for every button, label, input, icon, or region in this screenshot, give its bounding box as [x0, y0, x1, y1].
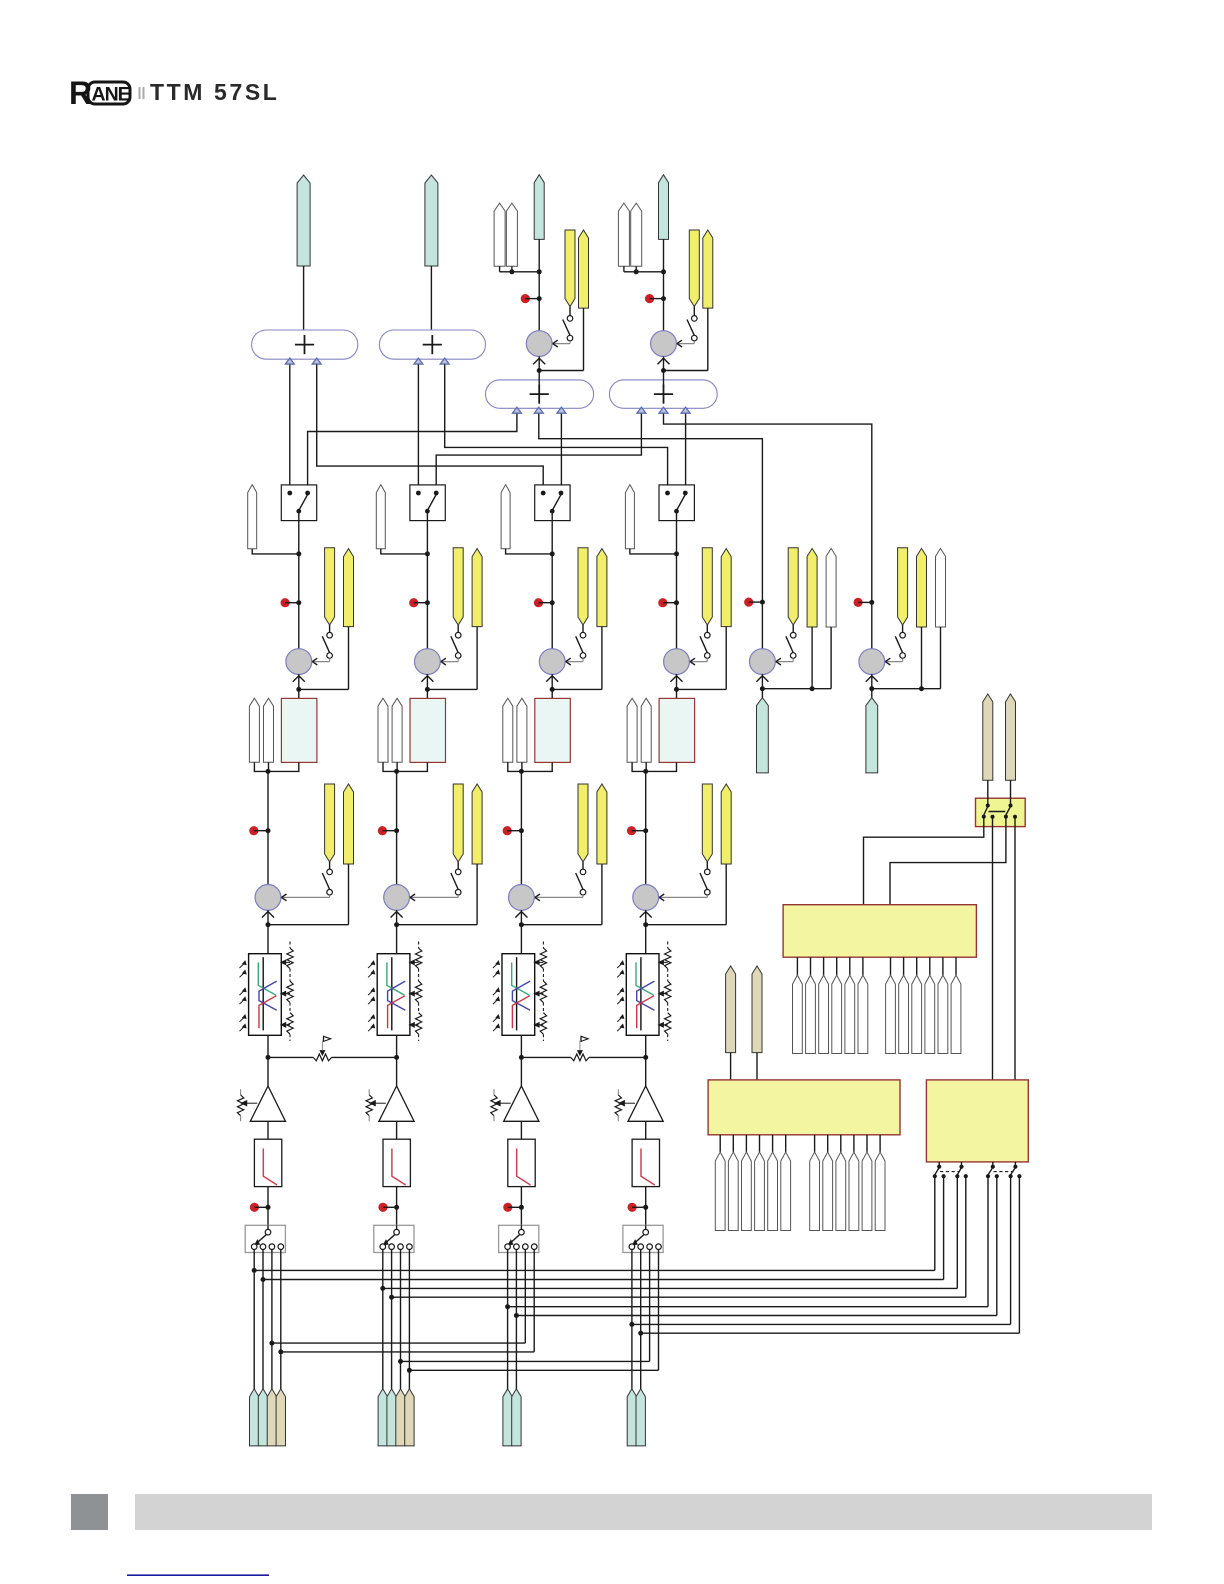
wire	[520, 1187, 522, 1226]
wire	[303, 266, 305, 336]
VCA circle	[633, 885, 659, 911]
footer square	[71, 1494, 108, 1530]
white return pill	[517, 698, 527, 762]
wire	[509, 266, 541, 274]
wire	[520, 1057, 522, 1086]
mic switch box	[976, 798, 1026, 826]
red status dot	[503, 1203, 524, 1212]
wire	[730, 1053, 732, 1080]
summing node master (ellipse 1)	[252, 330, 358, 364]
teal output pill	[659, 175, 669, 240]
switch contacts	[380, 1244, 412, 1253]
wire	[280, 1253, 282, 1391]
yellow control pill	[579, 230, 589, 308]
wire	[391, 1253, 393, 1391]
wire	[676, 689, 678, 698]
EQ flat curve	[391, 957, 393, 1030]
amp triangle ch3	[504, 1086, 539, 1121]
input chevron	[640, 912, 652, 918]
wire session R R-arrow riser	[685, 408, 687, 493]
input chevron	[293, 676, 305, 682]
DSP box C switches	[933, 1162, 1022, 1178]
wire	[760, 627, 831, 691]
yellow control pill	[898, 548, 908, 625]
wire	[397, 762, 428, 771]
control arrow	[410, 894, 458, 901]
wire	[661, 357, 666, 387]
wire	[538, 239, 540, 330]
matrix bus line 2	[261, 1176, 944, 1282]
red status dot	[854, 598, 875, 607]
bus wire master R to ch3L	[317, 359, 544, 493]
red status dot	[645, 294, 666, 303]
gain trim pot	[615, 1089, 635, 1121]
wire	[396, 1121, 398, 1139]
control arrow	[312, 658, 329, 665]
white return pill	[264, 698, 274, 762]
matrix bus line 10	[278, 1253, 534, 1355]
input chevron	[262, 912, 274, 918]
EQ low curve	[636, 962, 653, 995]
wire	[430, 266, 432, 336]
yellow control pill	[578, 784, 588, 862]
wire	[266, 910, 271, 954]
amp triangle ch1	[250, 1086, 285, 1121]
wire	[645, 771, 647, 830]
wire	[864, 817, 984, 905]
red status dot	[628, 1203, 649, 1212]
process box ch2	[410, 698, 446, 762]
VCA circle	[651, 331, 677, 357]
logo separator bars	[140, 87, 144, 99]
wire session L R-arrow riser	[560, 408, 562, 493]
white pill	[625, 485, 634, 549]
wire	[506, 549, 555, 557]
switch	[687, 307, 697, 341]
tan pill pgm R	[752, 966, 762, 1053]
yellow control pill	[578, 548, 588, 625]
wire	[396, 831, 398, 885]
wire	[630, 549, 679, 557]
control arrow	[677, 340, 694, 347]
wire	[425, 627, 477, 692]
wire	[520, 1121, 522, 1139]
wire	[426, 674, 428, 690]
EQ block ch1	[249, 954, 282, 1036]
wire	[508, 762, 524, 774]
wire master L riser	[289, 359, 291, 493]
summing node session L (ellipse 3)	[486, 380, 594, 413]
input select switch ch2	[374, 1225, 414, 1252]
wire	[519, 910, 524, 954]
wire	[676, 603, 678, 650]
matrix bus line 6	[514, 1176, 997, 1318]
EQ flat curve	[516, 957, 518, 1030]
bus wire ch2R to session R	[436, 408, 641, 493]
gain trim pot	[366, 1089, 386, 1121]
crossfader resistor	[313, 1054, 331, 1061]
switch	[451, 625, 461, 658]
source pill	[387, 1389, 396, 1446]
EQ block ch3	[502, 954, 535, 1036]
source pill	[276, 1389, 285, 1446]
DSP box A pills	[793, 975, 961, 1053]
source pill	[512, 1389, 521, 1446]
wire	[520, 1035, 522, 1057]
matrix bus line 7	[629, 1176, 1010, 1327]
bus wire session R to ch6	[664, 408, 872, 603]
yellow control pill	[703, 230, 713, 308]
input chevron	[756, 676, 768, 682]
VCA circle	[415, 649, 441, 675]
red status dot	[534, 598, 555, 607]
wire	[268, 864, 349, 925]
wire	[640, 1253, 642, 1391]
gain trim pot	[491, 1089, 511, 1121]
tan pill mic/aux R	[1006, 694, 1016, 780]
wire	[267, 771, 269, 830]
filter curve	[641, 1149, 655, 1186]
switch poles	[982, 804, 1017, 819]
red status dot	[627, 826, 648, 835]
matrix bus line 9	[269, 1253, 525, 1346]
yellow control pill	[702, 784, 712, 862]
red status dot	[281, 598, 302, 607]
source pill	[636, 1389, 645, 1446]
VCA circle	[539, 649, 565, 675]
VCA circle	[859, 649, 885, 675]
matrix bus line 11	[398, 1253, 650, 1364]
VCA circle	[286, 649, 312, 675]
wire	[551, 689, 553, 698]
DSP box A pins	[797, 957, 956, 975]
wire	[869, 627, 940, 691]
matrix bus line 12	[407, 1253, 659, 1373]
crossfader wire	[519, 1055, 648, 1060]
red status dot	[378, 826, 399, 835]
wire	[296, 627, 348, 692]
wire	[1010, 780, 1012, 805]
EQ low curve	[258, 962, 275, 995]
assign switch box ch3	[535, 485, 570, 521]
wire	[539, 308, 583, 370]
tan pill mic/aux L	[983, 694, 993, 780]
white return pill	[392, 698, 402, 762]
bus wire session L to ch5	[539, 408, 763, 602]
white pill	[826, 548, 836, 627]
switch contacts	[287, 491, 310, 514]
process box ch4	[659, 698, 695, 762]
EQ low curve	[512, 962, 529, 995]
DSP box B pins	[720, 1135, 880, 1152]
switch	[576, 862, 586, 895]
opto LED arrows	[617, 961, 624, 1031]
wire	[267, 1057, 269, 1086]
switch pole	[508, 1225, 524, 1245]
wire	[298, 674, 300, 690]
wire	[298, 689, 300, 698]
wire	[871, 674, 873, 689]
switch	[563, 307, 573, 341]
switch pole	[383, 1225, 399, 1245]
filter block ch1	[254, 1139, 281, 1186]
wire	[507, 1253, 509, 1391]
wire	[520, 831, 522, 885]
sum input arrows overlay	[285, 358, 690, 413]
wire	[426, 603, 428, 650]
wire	[551, 603, 553, 650]
wire	[267, 1187, 269, 1226]
wire	[515, 1253, 517, 1391]
VCA circle	[509, 885, 535, 911]
matrix bus line 1	[252, 1176, 935, 1273]
process box ch3	[535, 698, 571, 762]
input chevron	[533, 358, 545, 364]
filter curve	[263, 1149, 277, 1186]
yellow control pill	[689, 230, 699, 307]
red status dot	[378, 1203, 399, 1212]
crossfader resistor	[571, 1054, 589, 1061]
wire	[298, 511, 300, 603]
wire	[267, 1035, 269, 1057]
DSP box A	[783, 905, 976, 958]
white pill	[936, 548, 946, 627]
wire	[676, 674, 678, 690]
source pill	[250, 1389, 259, 1446]
source pill	[267, 1389, 276, 1446]
red status dot	[744, 598, 765, 607]
switch	[451, 862, 461, 895]
wire	[537, 357, 542, 387]
wire	[383, 762, 399, 774]
teal output pill	[534, 175, 544, 240]
yellow control pill	[807, 548, 817, 627]
filter block ch3	[508, 1139, 535, 1186]
yellow control pill	[344, 549, 354, 627]
red status dot	[521, 294, 542, 303]
white send pill	[627, 698, 637, 762]
filter curve	[392, 1149, 406, 1186]
control arrow	[776, 658, 793, 665]
yellow control pill	[597, 784, 607, 864]
control arrow	[282, 894, 330, 901]
wire	[520, 771, 522, 830]
wire	[396, 1187, 398, 1226]
wire	[634, 266, 666, 274]
switch contacts	[629, 1244, 661, 1253]
input chevron	[421, 676, 433, 682]
wire	[400, 1253, 402, 1391]
wire	[646, 762, 677, 771]
teal output pill	[757, 689, 769, 773]
svg-text:TTM 57SL: TTM 57SL	[150, 79, 279, 105]
white pill	[501, 485, 510, 549]
yellow control pill	[917, 548, 927, 627]
EQ pots	[281, 942, 293, 1042]
wire	[624, 266, 636, 272]
bus wire booth R to ch4L	[445, 359, 668, 493]
yellow control pill	[344, 784, 354, 864]
wire	[663, 239, 665, 330]
matrix bus line 4	[389, 1176, 966, 1300]
switch contacts	[541, 491, 564, 514]
switch	[786, 625, 796, 658]
wire	[550, 627, 602, 692]
switch pole	[633, 1225, 649, 1245]
yellow control pill	[565, 230, 575, 307]
wire	[631, 1253, 633, 1391]
bus wire ch1R to session L	[308, 408, 517, 493]
yellow control pill	[788, 548, 798, 625]
input select switch ch3	[499, 1225, 539, 1252]
white pill	[248, 485, 257, 549]
wire	[396, 771, 398, 830]
wire	[645, 1187, 647, 1226]
yellow control pill	[453, 548, 463, 625]
teal output pill	[866, 689, 878, 773]
wire	[645, 1057, 647, 1086]
EQ block ch2	[377, 954, 410, 1036]
EQ mid curve	[388, 981, 406, 1010]
crossfader wiper	[578, 1036, 589, 1055]
EQ high curve	[259, 996, 276, 1029]
wire	[871, 602, 873, 649]
switch contacts	[665, 491, 688, 514]
input select switch ch4	[623, 1225, 663, 1252]
wire	[521, 864, 602, 925]
wire	[396, 1057, 398, 1086]
white return pill	[631, 203, 642, 266]
control arrow	[566, 658, 583, 665]
wire	[992, 817, 994, 1080]
switch contacts	[416, 491, 439, 514]
wire	[646, 864, 727, 925]
white return pill	[641, 698, 651, 762]
opto LED arrows	[493, 961, 500, 1031]
filter curve	[517, 1149, 531, 1186]
control arrow	[690, 658, 707, 665]
wire	[551, 674, 553, 690]
wire booth L riser	[417, 359, 419, 493]
source pill	[396, 1389, 405, 1446]
DSP box B	[708, 1080, 900, 1135]
input chevron	[658, 358, 670, 364]
red status dot	[409, 598, 430, 607]
assign switch box ch2	[410, 485, 445, 521]
assign switch box ch4	[659, 485, 694, 521]
source pill	[627, 1389, 636, 1446]
wire	[551, 511, 553, 603]
EQ pots	[659, 942, 671, 1042]
VCA circle	[384, 885, 410, 911]
control arrow	[535, 894, 583, 901]
EQ block ch4	[626, 954, 659, 1036]
DSP box C	[926, 1080, 1028, 1162]
wire	[521, 762, 552, 771]
wire	[267, 1121, 269, 1139]
switch	[700, 862, 710, 895]
EQ pots	[409, 942, 421, 1042]
wire	[645, 1035, 647, 1057]
wire	[397, 864, 478, 925]
white return pill	[506, 203, 517, 266]
wire	[268, 762, 299, 771]
EQ high curve	[388, 996, 405, 1029]
VCA circle	[750, 649, 776, 675]
DSP box B pills	[715, 1152, 885, 1231]
wire	[298, 603, 300, 650]
VCA circle	[664, 649, 690, 675]
wire	[645, 1121, 647, 1139]
EQ pots	[534, 942, 546, 1042]
wire	[382, 1253, 384, 1391]
EQ mid curve	[637, 981, 655, 1010]
wire	[756, 1053, 758, 1080]
red status dot	[249, 826, 270, 835]
wire	[253, 1253, 255, 1391]
wire	[645, 831, 647, 885]
wire	[252, 549, 301, 557]
wire	[394, 910, 399, 954]
wire	[632, 762, 648, 774]
white send pill	[618, 203, 629, 266]
control arrow	[659, 894, 707, 901]
title TTM 57SL	[150, 79, 279, 105]
wire	[643, 910, 648, 954]
footer bar	[135, 1494, 1152, 1530]
yellow control pill	[597, 549, 607, 627]
switch contacts	[251, 1244, 283, 1253]
yellow control pill	[453, 784, 463, 862]
control arrow	[885, 658, 902, 665]
opto LED arrows	[240, 961, 247, 1031]
red status dot	[658, 598, 679, 607]
wire	[254, 762, 270, 774]
wire	[381, 549, 430, 557]
VCA circle	[526, 331, 552, 357]
yellow control pill	[472, 549, 482, 627]
white send pill	[494, 203, 505, 266]
matrix bus line 3	[380, 1176, 957, 1291]
RANE logo	[69, 75, 131, 111]
white send pill	[249, 698, 259, 762]
EQ mid curve	[259, 981, 277, 1010]
wire	[426, 511, 428, 603]
yellow control pill	[721, 784, 731, 864]
wire	[674, 627, 726, 692]
EQ high curve	[512, 996, 529, 1029]
EQ flat curve	[640, 957, 642, 1030]
control arrow	[441, 658, 458, 665]
wire	[987, 780, 989, 805]
switch	[322, 862, 332, 895]
filter block ch4	[632, 1139, 659, 1186]
switch	[895, 625, 905, 658]
yellow control pill	[702, 548, 712, 625]
summing node session R (ellipse 4)	[609, 380, 717, 413]
source pill	[378, 1389, 387, 1446]
amp triangle ch2	[379, 1086, 414, 1121]
input select switch ch1	[245, 1225, 285, 1252]
input chevron	[671, 676, 683, 682]
teal output pill BOOTH	[425, 175, 438, 266]
switch contacts	[505, 1244, 537, 1253]
tan pill pgm L	[726, 966, 736, 1053]
EQ flat curve	[262, 957, 264, 1030]
EQ mid curve	[512, 981, 530, 1010]
input chevron	[515, 912, 527, 918]
matrix bus line 5	[505, 1176, 988, 1309]
